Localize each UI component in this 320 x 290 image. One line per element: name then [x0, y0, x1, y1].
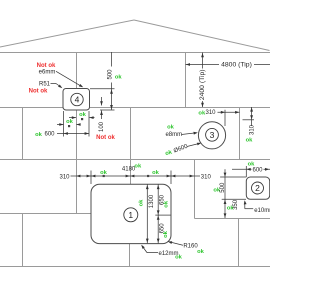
svg-text:ok: ok: [213, 187, 221, 193]
panel joint row2 b: [130, 108, 132, 160]
svg-text:ok: ok: [248, 161, 256, 167]
svg-text:ok: ok: [167, 125, 175, 131]
svg-text:e8mm: e8mm: [165, 132, 182, 138]
wall line row3-row4 left: [0, 213, 91, 215]
dim 500 d2 upper stub: [224, 169, 226, 176]
detail 1 badge circle: [124, 208, 138, 222]
wall line row1-row2: [0, 107, 270, 109]
small dim left half value: [68, 125, 70, 127]
dim 2400 Tip line: [202, 53, 204, 69]
svg-text:ok: ok: [134, 164, 142, 170]
panel joint row4 b: [129, 244, 131, 267]
panel joint row3 c: [194, 160, 196, 219]
dim 4800 Tip line: [186, 64, 220, 66]
dim 600 d2 extension left: [245, 166, 247, 177]
dim 4180 line: [91, 175, 171, 177]
leader R160: [169, 242, 183, 246]
svg-text:ok: ok: [79, 112, 87, 118]
dim 600 d2 text: [252, 166, 264, 172]
svg-text:ok: ok: [138, 199, 144, 207]
panel joint row1 b: [185, 53, 187, 108]
detail 4 opening square: [63, 89, 90, 111]
dim 4180 extension left: [90, 171, 92, 185]
dim 650 lower line: [157, 215, 159, 243]
svg-text:Not ok: Not ok: [37, 63, 56, 69]
svg-text:e10mm: e10mm: [254, 208, 270, 214]
detail 4 badge circle: [71, 93, 83, 105]
svg-text:1300: 1300: [149, 194, 155, 208]
dim 100 text: [98, 119, 104, 135]
svg-text:ok: ok: [197, 249, 205, 255]
svg-text:ok: ok: [163, 230, 169, 238]
dim 500 d2 line: [224, 177, 226, 199]
dim 600 extension left: [63, 111, 65, 137]
dim 4180 extension right: [170, 171, 172, 185]
svg-text:Not ok: Not ok: [29, 89, 48, 95]
panel joint row4 a: [22, 214, 24, 267]
detail 2 badge circle: [252, 182, 264, 194]
dim 500 text: [107, 67, 113, 83]
roof right slope: [134, 20, 270, 51]
svg-text:2: 2: [255, 183, 260, 193]
roof left slope: [0, 20, 134, 47]
detail 2 opening rectangle: [246, 177, 269, 199]
small dim right half value: [81, 118, 83, 120]
dim 500 extension line square bottom: [100, 109, 115, 111]
detail 3 opening circle: [198, 122, 225, 149]
svg-text:ok: ok: [115, 74, 123, 80]
svg-text:ok: ok: [35, 132, 43, 138]
svg-text:310: 310: [59, 174, 70, 180]
dim 4180 equal mark right: [147, 175, 149, 177]
svg-text:310: 310: [201, 174, 212, 180]
small dim right half line: [69, 117, 76, 119]
svg-text:ok: ok: [227, 206, 235, 212]
dim 310 left lead line: [71, 175, 77, 177]
dim 350 d2 line: [224, 199, 226, 218]
dim 600 extension right: [88, 111, 90, 137]
dim 500 d2 extension top: [220, 176, 246, 178]
dim 600 d2 line: [232, 168, 270, 170]
svg-text:310: 310: [205, 110, 216, 116]
panel joint row3 b: [130, 160, 132, 185]
dim 500 extension line square top: [90, 88, 115, 90]
dim 310 horizontal line: [218, 111, 240, 113]
dim 500 line: [111, 52, 113, 110]
svg-text:2400 (Tip): 2400 (Tip): [199, 69, 206, 100]
wall line row2-row3: [0, 159, 270, 161]
dim 310 vertical extension circle top: [243, 119, 255, 121]
svg-text:ok: ok: [175, 255, 183, 261]
dim 310 right span: [171, 175, 194, 177]
detail 1 opening rectangle: [91, 184, 171, 243]
leader diameter 600: [187, 143, 200, 146]
svg-text:310: 310: [249, 124, 255, 135]
leader e6mm: [56, 71, 82, 87]
dim 100 line lower: [101, 111, 103, 135]
leader e12mm: [147, 252, 158, 254]
svg-text:3: 3: [210, 130, 215, 140]
panel joint row4 c: [238, 219, 240, 267]
leader e10mm: [244, 202, 246, 209]
eaves line: [0, 52, 270, 54]
dim 650 mid extension: [155, 214, 170, 216]
dim 600 line: [57, 133, 89, 135]
svg-text:e6mm: e6mm: [39, 70, 56, 76]
dim 310 vertical line: [251, 107, 253, 126]
svg-text:100: 100: [99, 121, 105, 132]
svg-text:Not ok: Not ok: [96, 135, 115, 141]
dim 500 d2 extension bottom: [222, 198, 246, 200]
svg-text:ok: ok: [163, 200, 169, 208]
dim 310 right lead line: [194, 175, 200, 177]
dim 310 extension circle right: [224, 110, 226, 126]
leader R51: [51, 83, 57, 85]
panel joint row2 c: [239, 108, 241, 160]
svg-text:R51: R51: [39, 82, 51, 88]
svg-text:600: 600: [252, 167, 263, 173]
wall line row3-row4 right: [195, 218, 271, 220]
svg-text:350: 350: [233, 199, 239, 210]
dim 100 line upper: [101, 97, 103, 106]
svg-text:600: 600: [44, 132, 55, 138]
panel joint row2 a: [22, 108, 24, 160]
leader e8mm: [182, 133, 197, 135]
detail 3 badge circle: [206, 128, 219, 141]
svg-text:4: 4: [75, 95, 80, 105]
panel joint row1 a: [76, 53, 78, 89]
svg-text:ok: ok: [198, 110, 206, 116]
dim 4180 equal mark left: [103, 175, 105, 177]
svg-text:1: 1: [128, 210, 133, 220]
dim 650 upper line: [157, 184, 159, 215]
svg-text:4800 (Tip): 4800 (Tip): [221, 62, 252, 69]
panel joint below detail 4: [76, 110, 78, 160]
svg-text:ok: ok: [246, 138, 254, 144]
svg-text:R160: R160: [183, 244, 198, 250]
panel joint row3 a: [76, 160, 78, 214]
svg-text:ok: ok: [152, 170, 160, 176]
wall base line: [0, 266, 270, 268]
dim 1300 line: [146, 184, 148, 243]
small dim left half line: [57, 124, 64, 126]
dim 310 left span: [76, 175, 91, 177]
svg-text:ok: ok: [66, 119, 74, 125]
svg-text:500: 500: [108, 69, 114, 80]
svg-text:500: 500: [220, 182, 226, 193]
